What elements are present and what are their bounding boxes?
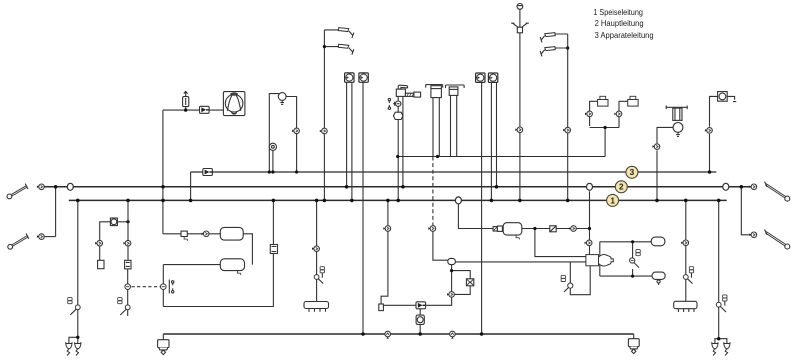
svg-text:2: 2 xyxy=(619,183,624,192)
svg-text:2 Hauptleitung: 2 Hauptleitung xyxy=(595,18,644,28)
svg-text:1: 1 xyxy=(610,196,615,205)
svg-text:3 Apparateleitung: 3 Apparateleitung xyxy=(595,30,654,40)
svg-text:1 Speiseleitung: 1 Speiseleitung xyxy=(593,7,643,17)
svg-text:3: 3 xyxy=(630,168,635,177)
